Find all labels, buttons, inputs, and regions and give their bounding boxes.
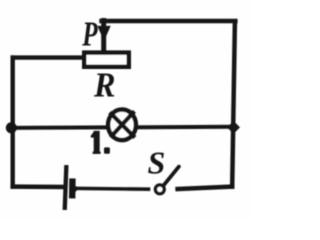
battery short plate	[69, 182, 76, 196]
svg-text:P: P	[81, 15, 98, 54]
rheostat wiper stem	[101, 21, 106, 53]
svg-text:S: S	[148, 145, 166, 181]
rheostat wiper arrowhead	[97, 26, 110, 41]
wire top horizontal (slider P to top-right corner)	[102, 19, 236, 24]
label L (lamp designator drawn as glyph)	[91, 131, 110, 154]
wire top-left horizontal (left rail to rheostat left terminal)	[13, 55, 84, 59]
switch S lever (open)	[163, 167, 179, 186]
wire middle horizontal (lamp branch)	[11, 127, 232, 128]
battery long plate	[65, 167, 67, 208]
svg-text:R: R	[93, 66, 115, 105]
rheostat R body	[84, 53, 129, 67]
node right junction	[227, 121, 240, 134]
wire left vertical	[10, 58, 14, 187]
lamp L (circle with X)	[108, 110, 136, 141]
wire bottom-middle (battery to switch pivot)	[77, 187, 149, 191]
wire bottom-left (corner to battery)	[13, 184, 65, 189]
switch S pivot	[155, 185, 164, 194]
node left junction	[6, 122, 17, 133]
wire right vertical (top-right corner to bottom-right corner)	[232, 21, 235, 186]
wire bottom-right (switch contact to corner)	[178, 187, 233, 189]
